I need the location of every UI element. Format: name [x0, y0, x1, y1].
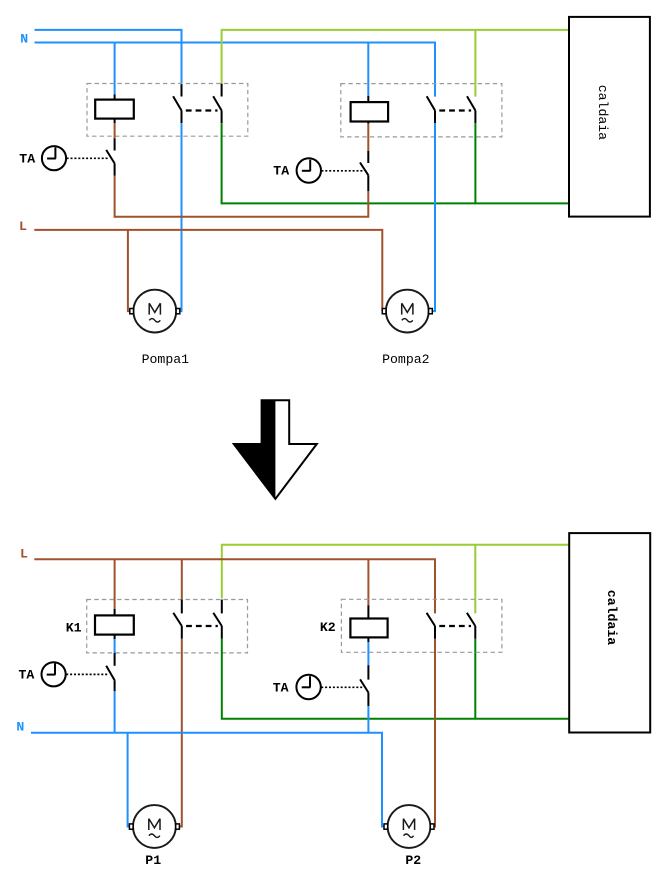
clock TA1: [42, 146, 66, 170]
wire contact KA1-1 to motor M1 (blue): [180, 123, 182, 311]
coil K1: [95, 609, 134, 639]
label caldaia (bottom): [604, 590, 619, 645]
svg-text:N: N: [16, 720, 24, 735]
label K2: [320, 620, 336, 635]
label L (bottom): [20, 546, 28, 561]
wire coil KA1 to TA1 switch: [114, 123, 116, 139]
wire yellowgreen to contact KA2-2: [474, 30, 476, 97]
wire N to motor P1: [128, 733, 130, 827]
label TA (bottom middle): [273, 680, 289, 695]
coil KA2: [351, 96, 389, 124]
svg-text:P2: P2: [405, 853, 421, 868]
label P2: [405, 853, 421, 868]
label Pompa2: [382, 352, 429, 367]
wire L to contact K1-1: [181, 559, 183, 599]
timer link TA (dotted, bottom left): [66, 673, 108, 675]
wire coil KA2 to TA2 switch: [367, 124, 369, 151]
svg-text:Pompa1: Pompa1: [142, 352, 190, 367]
wire TA to N bus (middle): [367, 706, 369, 733]
wire L to motor M1: [128, 230, 130, 311]
mechanical link K1 (dashed): [186, 625, 218, 627]
contact K2-2 blade: [467, 613, 475, 639]
motor M1: [130, 290, 180, 333]
wire yellowgreen bottom to caldaia: [222, 545, 569, 599]
timer contact TA1: [106, 139, 114, 176]
mechanical link K2 (dashed): [439, 625, 471, 627]
wire green return top to caldaia: [222, 123, 569, 203]
timer link TA1 (dotted): [67, 157, 109, 159]
svg-text:Pompa2: Pompa2: [382, 352, 429, 367]
svg-text:TA: TA: [19, 151, 35, 166]
caldaia box (bottom): [569, 533, 650, 732]
wire L bus (bottom): [34, 559, 435, 613]
motor P1: [129, 805, 179, 848]
wire TA2 down and L upper link: [115, 191, 369, 217]
contact K1-1: [173, 600, 182, 639]
wire green from contact K2-2: [474, 639, 476, 719]
contact KA1-2: [213, 84, 221, 123]
svg-text:TA: TA: [273, 164, 289, 179]
wire L lower bus: [34, 230, 382, 311]
clock TA (bottom left): [42, 662, 66, 686]
svg-text:P1: P1: [145, 853, 161, 868]
timer contact TA (bottom middle): [360, 665, 368, 706]
wire TA1 to L link: [114, 176, 116, 218]
timer link TA (dotted, bottom middle): [321, 686, 363, 688]
label TA (bottom left): [19, 668, 35, 683]
clock TA2: [297, 158, 321, 182]
mechanical link KA2 (dashed): [439, 109, 471, 111]
contact K1-2: [213, 600, 222, 639]
label L (top diagram): [19, 219, 27, 234]
label N (bottom): [16, 720, 24, 735]
motor P2: [384, 805, 434, 848]
wire N to coil KA2: [367, 43, 369, 96]
wire N bus (bottom): [31, 733, 384, 827]
wire coil K2 to TA switch: [367, 642, 369, 665]
clock TA (bottom middle): [296, 675, 320, 699]
svg-text:K1: K1: [66, 621, 82, 636]
label P1: [145, 853, 161, 868]
wire yellowgreen top to caldaia: [222, 30, 569, 84]
arrow left half (filled): [234, 400, 276, 499]
relay KA1 dashed enclosure: [87, 84, 248, 137]
label K1: [66, 621, 82, 636]
label Pompa1: [142, 352, 190, 367]
svg-text:K2: K2: [320, 620, 336, 635]
mechanical link KA1 (dashed): [186, 109, 218, 111]
coil K2: [350, 605, 387, 642]
wire contact K1-1 to motor P1 (brown): [180, 639, 182, 827]
relay K1 dashed enclosure: [87, 600, 248, 653]
label N: [20, 31, 28, 46]
contact KA1-1: [173, 84, 181, 123]
svg-text:TA: TA: [273, 680, 289, 695]
wire contact KA2-1 to motor M2 (blue): [432, 123, 435, 311]
wire L to coil K1: [114, 559, 116, 609]
contact KA2-1: [427, 96, 435, 123]
svg-text:caldaia: caldaia: [595, 85, 610, 140]
timer contact TA2: [360, 151, 368, 191]
svg-text:N: N: [20, 31, 28, 46]
timer link TA2 (dotted): [321, 170, 363, 172]
wire green return bottom to caldaia: [222, 639, 569, 719]
label TA (top left): [19, 151, 35, 166]
arrow outline: [234, 400, 317, 499]
timer contact TA (bottom left): [106, 653, 114, 691]
wire yellowgreen to contact K2-2: [474, 545, 476, 614]
relay K2 dashed enclosure: [341, 599, 502, 652]
label TA (top middle): [273, 164, 289, 179]
contact KA2-2 blade: [467, 96, 475, 123]
coil KA1: [95, 94, 134, 123]
label caldaia (top): [595, 85, 610, 140]
svg-text:L: L: [20, 546, 28, 561]
motor M2: [382, 290, 432, 333]
wire TA to N bus: [114, 691, 116, 732]
wire N to coil KA1: [114, 43, 116, 95]
wire green from contact KA2-2: [474, 123, 476, 203]
wire N upper (blue): [35, 30, 182, 84]
wire contact K2-1 to motor P2 (brown): [434, 639, 435, 827]
svg-text:caldaia: caldaia: [604, 590, 619, 645]
wire coil K1 to TA switch: [114, 639, 116, 653]
contact K2-1: [427, 613, 435, 639]
svg-text:L: L: [19, 219, 27, 234]
svg-text:TA: TA: [19, 668, 35, 683]
wire N lower bus (blue): [35, 43, 436, 97]
relay KA2 dashed enclosure: [341, 84, 502, 137]
wire L to coil K2: [367, 559, 369, 605]
caldaia box (top): [569, 17, 650, 217]
